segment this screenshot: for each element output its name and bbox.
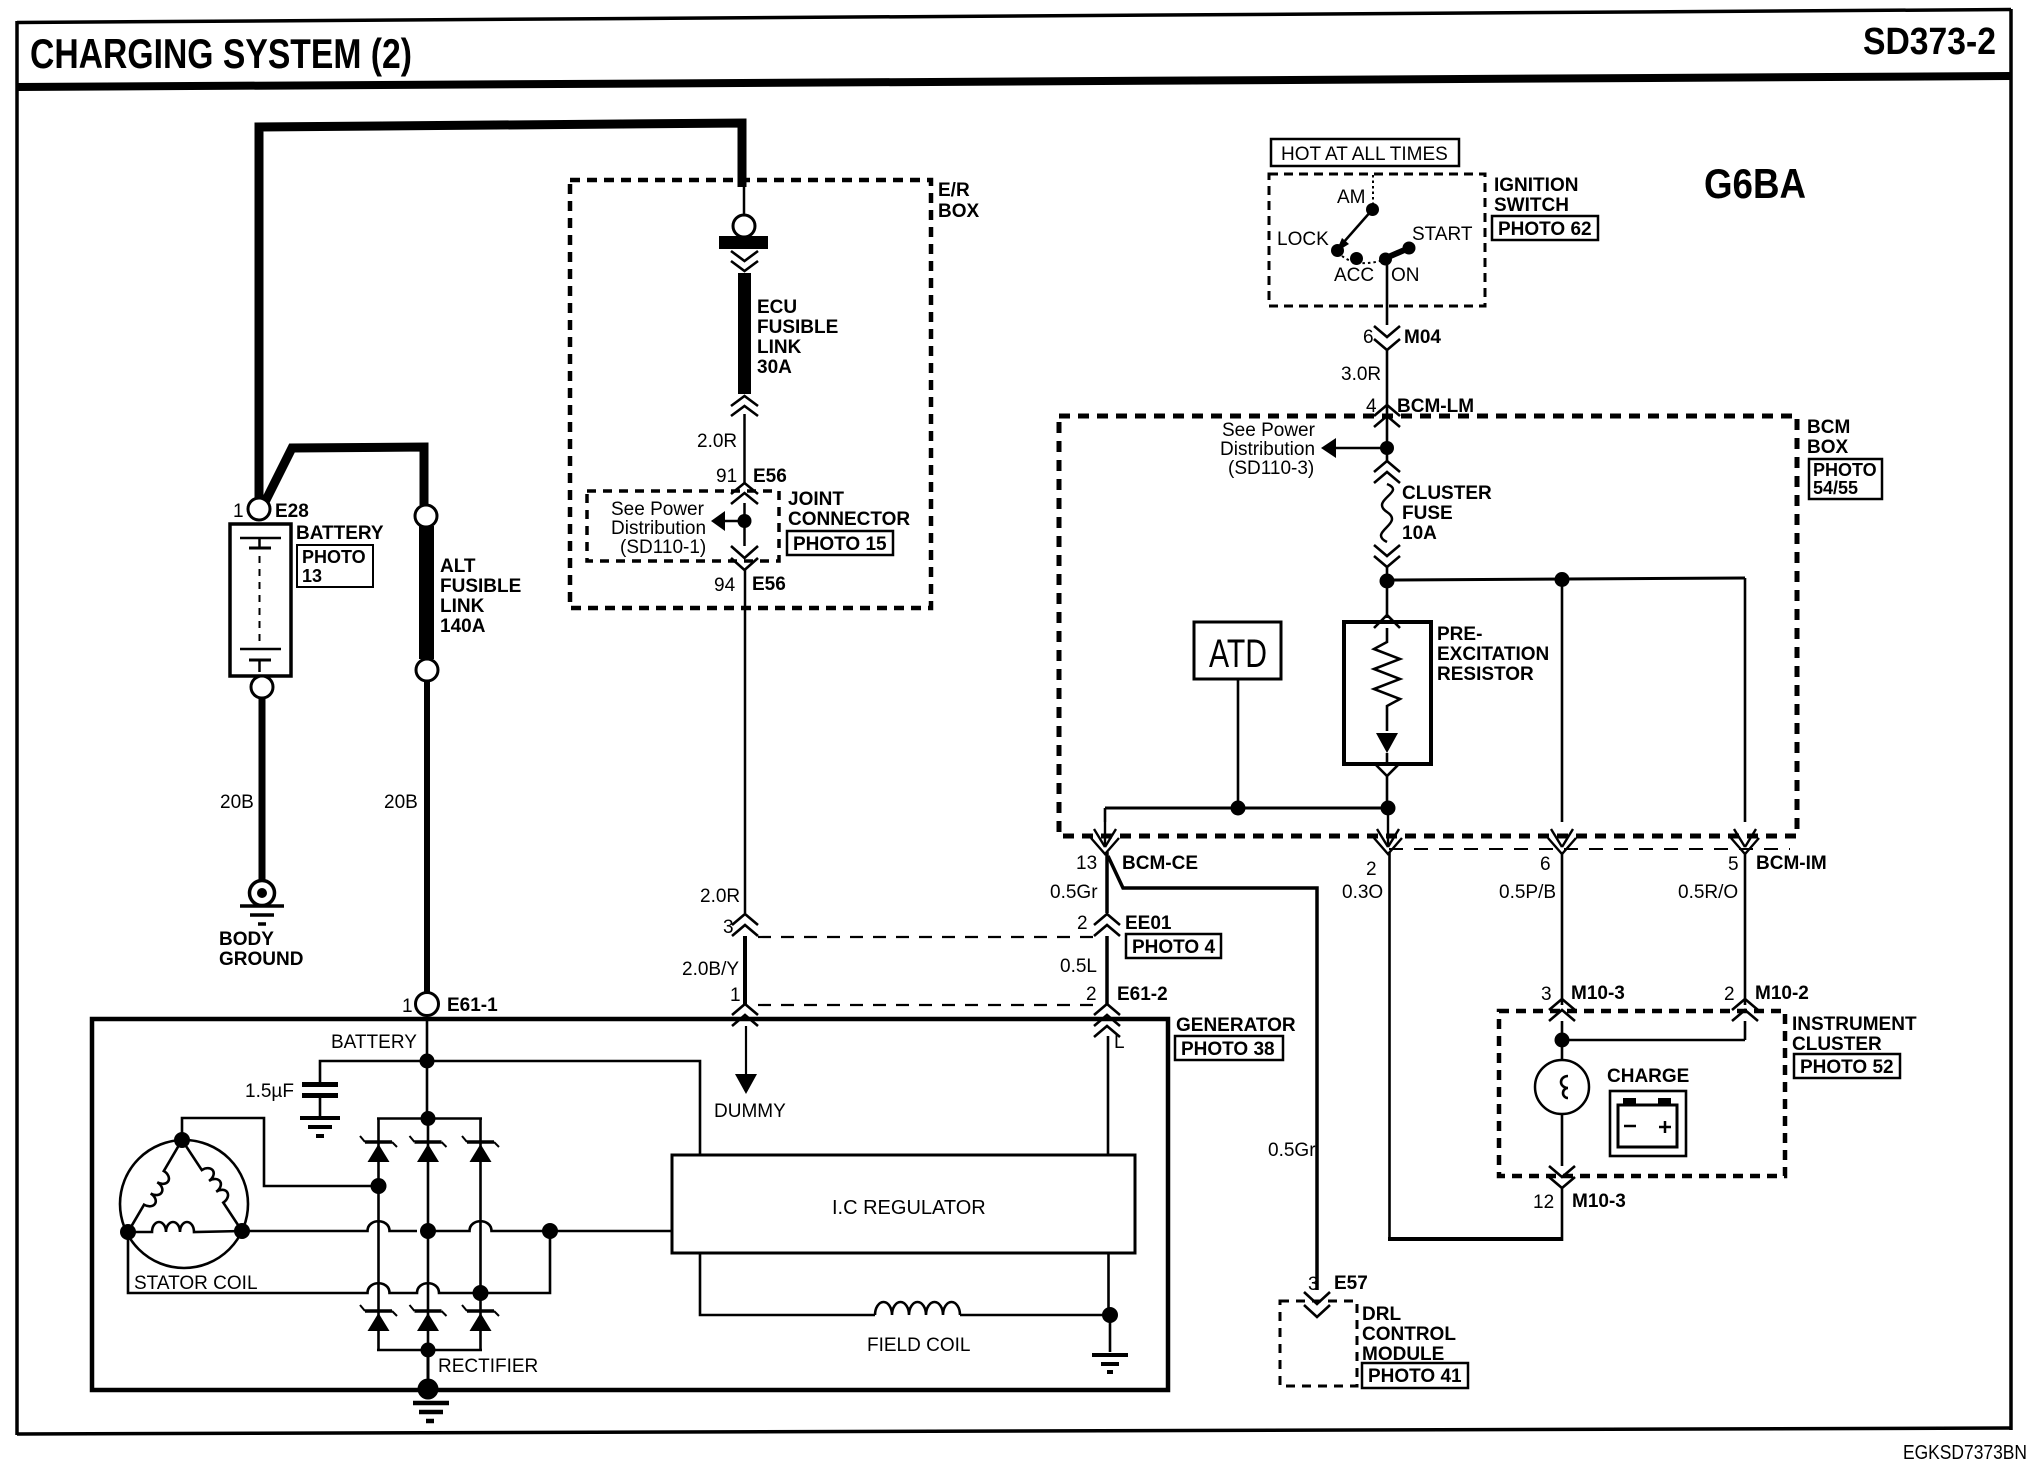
svg-text:EE01: EE01 <box>1125 913 1172 934</box>
svg-text:BCM-CE: BCM-CE <box>1122 853 1198 874</box>
stator coil circle <box>120 1140 248 1268</box>
svg-text:M04: M04 <box>1404 327 1441 348</box>
wire lamp to pin 12 <box>1561 1113 1564 1166</box>
svg-text:0.5Gr: 0.5Gr <box>1268 1140 1316 1161</box>
pin 6 BCM arrow (0.5P/B) <box>1548 829 1576 854</box>
label PHOTO 41 box <box>1362 1363 1468 1388</box>
wire IC regulator to field coil left <box>700 1253 875 1315</box>
svg-text:CHARGING SYSTEM (2): CHARGING SYSTEM (2) <box>30 30 412 77</box>
label PHOTO 38 box <box>1175 1036 1283 1060</box>
svg-text:5: 5 <box>1728 854 1739 875</box>
label PHOTO 4 box <box>1126 934 1221 958</box>
svg-text:140A: 140A <box>440 616 486 637</box>
svg-text:E/R: E/R <box>938 180 970 201</box>
inductor field coil <box>875 1302 960 1315</box>
wire dashed from 1 connector to E61-2 <box>758 1004 1096 1006</box>
svg-text:STATOR COIL: STATOR COIL <box>134 1273 258 1294</box>
stator winding top-left <box>128 1140 190 1237</box>
wire 0.5P/B inside BCM <box>1561 580 1564 822</box>
svg-text:1.5µF: 1.5µF <box>245 1081 294 1102</box>
battery icon <box>1618 1105 1677 1147</box>
diode D3 <box>462 1136 499 1162</box>
fuse: ALT fusible link 140A bar <box>419 526 434 659</box>
box DRL control module dashed <box>1280 1301 1357 1386</box>
node junction dot 0.5P/B <box>1555 572 1570 587</box>
wire ATD down <box>1237 679 1240 808</box>
label PHOTO 54/55 box <box>1809 459 1882 499</box>
node generator ground dot <box>418 1379 439 1400</box>
node battery terminal junction dot <box>420 1054 435 1069</box>
svg-text:SWITCH: SWITCH <box>1494 195 1569 216</box>
diode D4 <box>360 1305 397 1331</box>
node stator bottom-left vertex dot <box>120 1224 136 1240</box>
svg-text:1: 1 <box>402 996 413 1017</box>
svg-text:2: 2 <box>1077 913 1088 934</box>
svg-text:3: 3 <box>1541 984 1552 1005</box>
ground: body ground symbol <box>240 881 284 925</box>
svg-text:PHOTO 15: PHOTO 15 <box>793 534 887 555</box>
pin 5 BCM-IM arrow (0.5R/O) <box>1731 829 1759 854</box>
node 1 E28 connector ring <box>248 498 270 520</box>
node ATD junction dot <box>1231 801 1246 816</box>
label HOT AT ALL TIMES box <box>1271 139 1459 166</box>
diode D2 <box>410 1136 447 1162</box>
label PHOTO 13 box <box>297 545 373 587</box>
svg-text:PHOTO 38: PHOTO 38 <box>1181 1039 1275 1060</box>
node battery bottom connector ring <box>251 676 273 698</box>
diode in resistor box <box>1376 733 1398 753</box>
wire 0.5Gr vertical below BCM-CE <box>1105 852 1109 913</box>
svg-text:E61-1: E61-1 <box>447 995 498 1016</box>
svg-text:12: 12 <box>1533 1192 1554 1213</box>
svg-text:BODY: BODY <box>219 929 274 950</box>
connector chevrons below holder <box>731 251 758 271</box>
svg-text:1: 1 <box>730 985 741 1006</box>
wire 0.5L <box>1105 936 1109 1004</box>
wire 0.5Gr branch diagonal and across <box>1108 856 1317 1290</box>
svg-text:ACC: ACC <box>1334 265 1374 286</box>
node junction dot at BCM-LM feed <box>1380 441 1394 455</box>
node rectifier top dot <box>421 1111 436 1126</box>
svg-text:10A: 10A <box>1402 523 1437 544</box>
svg-text:0.3O: 0.3O <box>1342 882 1383 903</box>
svg-text:2.0R: 2.0R <box>700 886 740 907</box>
svg-text:6: 6 <box>1363 327 1374 348</box>
svg-text:54/55: 54/55 <box>1813 478 1858 498</box>
node junction dot E56 <box>738 514 752 528</box>
wire bus to BCM-IM pins <box>1387 578 1745 580</box>
svg-text:CONTROL: CONTROL <box>1362 1324 1456 1345</box>
wire: joint connector vertical <box>743 503 746 546</box>
wire rectifier to ground <box>427 1350 430 1389</box>
svg-text:30A: 30A <box>757 357 792 378</box>
svg-text:See Power: See Power <box>611 499 705 520</box>
svg-text:PRE-: PRE- <box>1437 624 1482 645</box>
svg-text:GENERATOR: GENERATOR <box>1176 1015 1296 1036</box>
resistor R pre-excitation zigzag <box>1374 628 1400 731</box>
svg-text:PHOTO: PHOTO <box>1813 460 1877 480</box>
arrow to power distribution SD110-3 <box>1321 438 1336 458</box>
wire ignition output <box>1386 259 1389 325</box>
wire to DUMMY <box>745 1026 747 1076</box>
node AM contact <box>1366 203 1379 216</box>
wire stator phase3 row <box>128 1231 550 1293</box>
svg-text:BOX: BOX <box>938 201 980 222</box>
wire fuse to junction <box>1386 566 1389 581</box>
wire E61-1 into generator <box>426 1015 429 1119</box>
svg-text:PHOTO 4: PHOTO 4 <box>1132 937 1215 958</box>
arrow to power distribution <box>711 511 725 531</box>
pin 2 BCM arrow (0.3O) <box>1374 808 1402 854</box>
box pre-excitation resistor <box>1344 622 1431 764</box>
wire junction to pre-excitation resistor <box>1386 581 1389 618</box>
resistor terminal chevron top <box>1374 615 1400 628</box>
capacitor C 1.5uF <box>320 1061 427 1082</box>
svg-text:FUSIBLE: FUSIBLE <box>757 317 838 338</box>
wire resistor to junction <box>1386 775 1389 808</box>
svg-text:EGKSD7373BN: EGKSD7373BN <box>1903 1442 2027 1464</box>
node 94 E56 connector chevrons <box>731 546 758 570</box>
connector chevrons below link <box>731 396 758 416</box>
svg-text:BCM-IM: BCM-IM <box>1756 853 1827 874</box>
svg-text:FIELD COIL: FIELD COIL <box>867 1335 970 1356</box>
wire IC regulator right leg <box>1107 1253 1110 1315</box>
svg-text:M10-2: M10-2 <box>1755 983 1809 1004</box>
box instrument cluster dashed <box>1499 1011 1785 1176</box>
node phase2 mid junction dot <box>420 1223 436 1239</box>
switch lever ON to START <box>1386 248 1409 258</box>
svg-text:20B: 20B <box>384 792 418 813</box>
svg-text:RESISTOR: RESISTOR <box>1437 664 1534 685</box>
svg-text:E56: E56 <box>752 574 786 595</box>
node ACC contact <box>1350 252 1363 265</box>
svg-text:91: 91 <box>716 466 737 487</box>
stator winding bottom <box>128 1222 242 1232</box>
node ALT fusible link top ring <box>415 505 437 527</box>
node phase2 sense junction dot <box>542 1223 558 1239</box>
node stator top vertex dot <box>174 1132 190 1148</box>
svg-text:PHOTO 62: PHOTO 62 <box>1498 219 1592 240</box>
svg-text:2: 2 <box>1366 859 1377 880</box>
pin 13 BCM-CE arrow <box>1091 822 1119 854</box>
fuse: ECU fusible link holder bar <box>719 236 768 249</box>
svg-text:13: 13 <box>302 566 322 586</box>
wire 0.5R/O to cluster <box>1744 852 1747 1005</box>
node ALT fusible link bottom ring <box>416 659 438 681</box>
svg-text:G6BA: G6BA <box>1704 160 1806 207</box>
svg-text:E61-2: E61-2 <box>1117 984 1168 1005</box>
svg-text:E57: E57 <box>1334 1273 1368 1294</box>
svg-text:DUMMY: DUMMY <box>714 1101 786 1122</box>
wire: battery to body ground 20B <box>259 698 266 880</box>
svg-text:LINK: LINK <box>757 337 802 358</box>
svg-text:0.5L: 0.5L <box>1060 956 1097 977</box>
wire dotted feed to AM <box>1372 175 1374 206</box>
svg-text:AM: AM <box>1337 187 1366 208</box>
fuse terminal chevrons bottom <box>1374 545 1400 567</box>
svg-text:2.0B/Y: 2.0B/Y <box>682 959 739 980</box>
box See Power Distribution (SD110-1) dashed <box>587 491 779 561</box>
wire lamp feed junction <box>1561 1021 1564 1061</box>
svg-text:SD373-2: SD373-2 <box>1863 21 1996 63</box>
wire 2.0B/Y <box>743 936 747 1004</box>
svg-text:FUSIBLE: FUSIBLE <box>440 576 521 597</box>
wire field coil to junction <box>960 1314 1110 1317</box>
svg-text:94: 94 <box>714 575 736 596</box>
svg-text:E28: E28 <box>275 501 309 522</box>
node 12 M10-3 connector <box>1549 1166 1575 1188</box>
box ignition switch dashed <box>1269 174 1485 306</box>
svg-text:I.C REGULATOR: I.C REGULATOR <box>832 1197 986 1219</box>
dashed connector row line <box>1389 848 1790 850</box>
svg-text:1: 1 <box>233 501 244 522</box>
svg-text:M10-3: M10-3 <box>1572 1191 1626 1212</box>
fuse terminal chevrons top <box>1374 461 1400 483</box>
svg-text:M10-3: M10-3 <box>1571 983 1625 1004</box>
box generator <box>92 1019 1168 1390</box>
svg-text:3: 3 <box>1308 1274 1319 1295</box>
node 1 E61-1 connector ring <box>416 993 439 1016</box>
label PHOTO 62 box <box>1492 216 1598 240</box>
box BCM dashed <box>1059 416 1797 836</box>
svg-text:ON: ON <box>1391 265 1420 286</box>
svg-text:INSTRUMENT: INSTRUMENT <box>1792 1014 1917 1035</box>
resistor terminal chevron bottom <box>1374 763 1400 776</box>
svg-text:LOCK: LOCK <box>1277 229 1329 250</box>
svg-text:0.5R/O: 0.5R/O <box>1678 882 1738 903</box>
svg-text:Distribution: Distribution <box>1220 439 1315 460</box>
svg-text:PHOTO 52: PHOTO 52 <box>1800 1057 1894 1078</box>
wire stator phase2 row <box>242 1221 417 1231</box>
svg-text:JOINT: JOINT <box>788 489 844 510</box>
wire 0.5R/O inside BCM <box>1744 578 1747 822</box>
battery icon outer box <box>1610 1091 1686 1156</box>
svg-text:IGNITION: IGNITION <box>1494 175 1578 196</box>
lamp CHARGE indicator <box>1535 1060 1589 1114</box>
wire dashed from 3 connector to EE01 <box>758 936 1101 938</box>
svg-text:RECTIFIER: RECTIFIER <box>438 1356 538 1377</box>
wire 3.0R <box>1386 349 1389 462</box>
node rectifier bottom dot <box>421 1343 436 1358</box>
wire to generator internal ground <box>1109 1315 1112 1352</box>
svg-text:2.0R: 2.0R <box>697 431 737 452</box>
wire 0.5P/B to cluster <box>1561 852 1564 1005</box>
node lamp junction dot <box>1555 1033 1570 1048</box>
node phase3 junction dot <box>473 1285 489 1301</box>
node phase1 junction dot <box>371 1178 387 1194</box>
svg-text:(SD110-1): (SD110-1) <box>620 537 706 558</box>
svg-text:L: L <box>1114 1032 1125 1053</box>
wire horizontal bus to BCM-CE <box>1105 807 1388 810</box>
svg-text:See Power: See Power <box>1222 420 1316 441</box>
svg-text:DRL: DRL <box>1362 1304 1401 1325</box>
wire: ALT branch diagonal from E28 <box>263 447 424 506</box>
wire: 2.0R from joint connector down to generator area <box>744 570 747 913</box>
wire battery bus to IC regulator <box>427 1061 700 1155</box>
diode D6 <box>462 1305 499 1331</box>
svg-text:START: START <box>1412 224 1473 245</box>
fuse: ECU fusible link 30A bar <box>738 273 751 394</box>
svg-text:(SD110-3): (SD110-3) <box>1228 458 1314 479</box>
box I.C regulator <box>672 1155 1135 1253</box>
label PHOTO 52 box <box>1794 1054 1900 1078</box>
node junction dot below fuse <box>1380 574 1395 589</box>
svg-text:2: 2 <box>1086 984 1097 1005</box>
node resistor junction dot <box>1381 801 1396 816</box>
box ATD <box>1194 622 1281 679</box>
wire: battery positive cable top rail 20B <box>259 123 742 505</box>
svg-text:PHOTO: PHOTO <box>302 547 366 567</box>
svg-text:13: 13 <box>1076 853 1097 874</box>
svg-text:PHOTO 41: PHOTO 41 <box>1368 1366 1462 1387</box>
svg-text:0.5P/B: 0.5P/B <box>1499 882 1556 903</box>
svg-text:3.0R: 3.0R <box>1341 364 1381 385</box>
svg-text:BCM: BCM <box>1807 417 1850 438</box>
wire: 2.0R inside E/R box <box>743 414 746 484</box>
svg-text:CLUSTER: CLUSTER <box>1792 1034 1882 1055</box>
svg-text:6: 6 <box>1540 854 1551 875</box>
svg-text:Distribution: Distribution <box>611 518 706 539</box>
wire L to IC regulator <box>1107 1036 1110 1155</box>
arrow DUMMY terminal <box>735 1074 757 1094</box>
dotted arc LOCK-ACC-ON <box>1342 256 1380 263</box>
svg-text:BOX: BOX <box>1807 437 1849 458</box>
svg-text:CONNECTOR: CONNECTOR <box>788 509 910 530</box>
generator L pin chevron <box>1094 1026 1120 1037</box>
wire down to BCM-CE pin <box>1104 808 1107 822</box>
wire: ALT link to E61-1 20B <box>424 681 430 993</box>
node ON contact <box>1379 253 1392 266</box>
node field coil junction dot <box>1102 1307 1118 1323</box>
rectifier bridge <box>377 1119 482 1351</box>
svg-text:E56: E56 <box>753 466 787 487</box>
node stator bottom-right vertex dot <box>234 1223 250 1239</box>
svg-text:FUSE: FUSE <box>1402 503 1453 524</box>
svg-text:CLUSTER: CLUSTER <box>1402 483 1492 504</box>
svg-text:EXCITATION: EXCITATION <box>1437 644 1549 665</box>
svg-text:BATTERY: BATTERY <box>296 523 384 544</box>
svg-text:LINK: LINK <box>440 596 485 617</box>
node fusible link top ring <box>733 215 755 237</box>
svg-text:ECU: ECU <box>757 297 797 318</box>
diode D5 <box>410 1305 447 1331</box>
svg-text:0.5Gr: 0.5Gr <box>1050 882 1098 903</box>
wire stator phase1 to rectifier <box>182 1118 379 1186</box>
svg-text:CHARGE: CHARGE <box>1607 1066 1689 1087</box>
diode D1 <box>360 1136 397 1162</box>
svg-text:ATD: ATD <box>1209 632 1267 676</box>
svg-text:HOT AT ALL TIMES: HOT AT ALL TIMES <box>1281 144 1448 165</box>
label PHOTO 15 box <box>787 531 893 555</box>
svg-text:20B: 20B <box>220 792 254 813</box>
wire: thin lead into E/R box fusible link <box>743 185 746 215</box>
fuse CLUSTER FUSE 10A <box>1381 484 1393 542</box>
battery B1 <box>230 524 291 676</box>
wire 0.3O down and across to pin 12 <box>1388 852 1391 1239</box>
svg-text:2: 2 <box>1724 984 1735 1005</box>
box E/R BOX dashed <box>570 180 931 608</box>
switch lever AM to LOCK <box>1343 210 1372 243</box>
svg-text:ALT: ALT <box>440 556 476 577</box>
svg-text:GROUND: GROUND <box>219 949 303 970</box>
stator winding top-right <box>182 1135 250 1231</box>
ground rectifier <box>413 1403 449 1421</box>
node START contact <box>1403 242 1416 255</box>
ground IC regulator <box>1092 1355 1128 1372</box>
ground capacitor <box>300 1118 340 1136</box>
svg-text:BATTERY: BATTERY <box>331 1032 417 1053</box>
node LOCK contact <box>1331 244 1344 257</box>
